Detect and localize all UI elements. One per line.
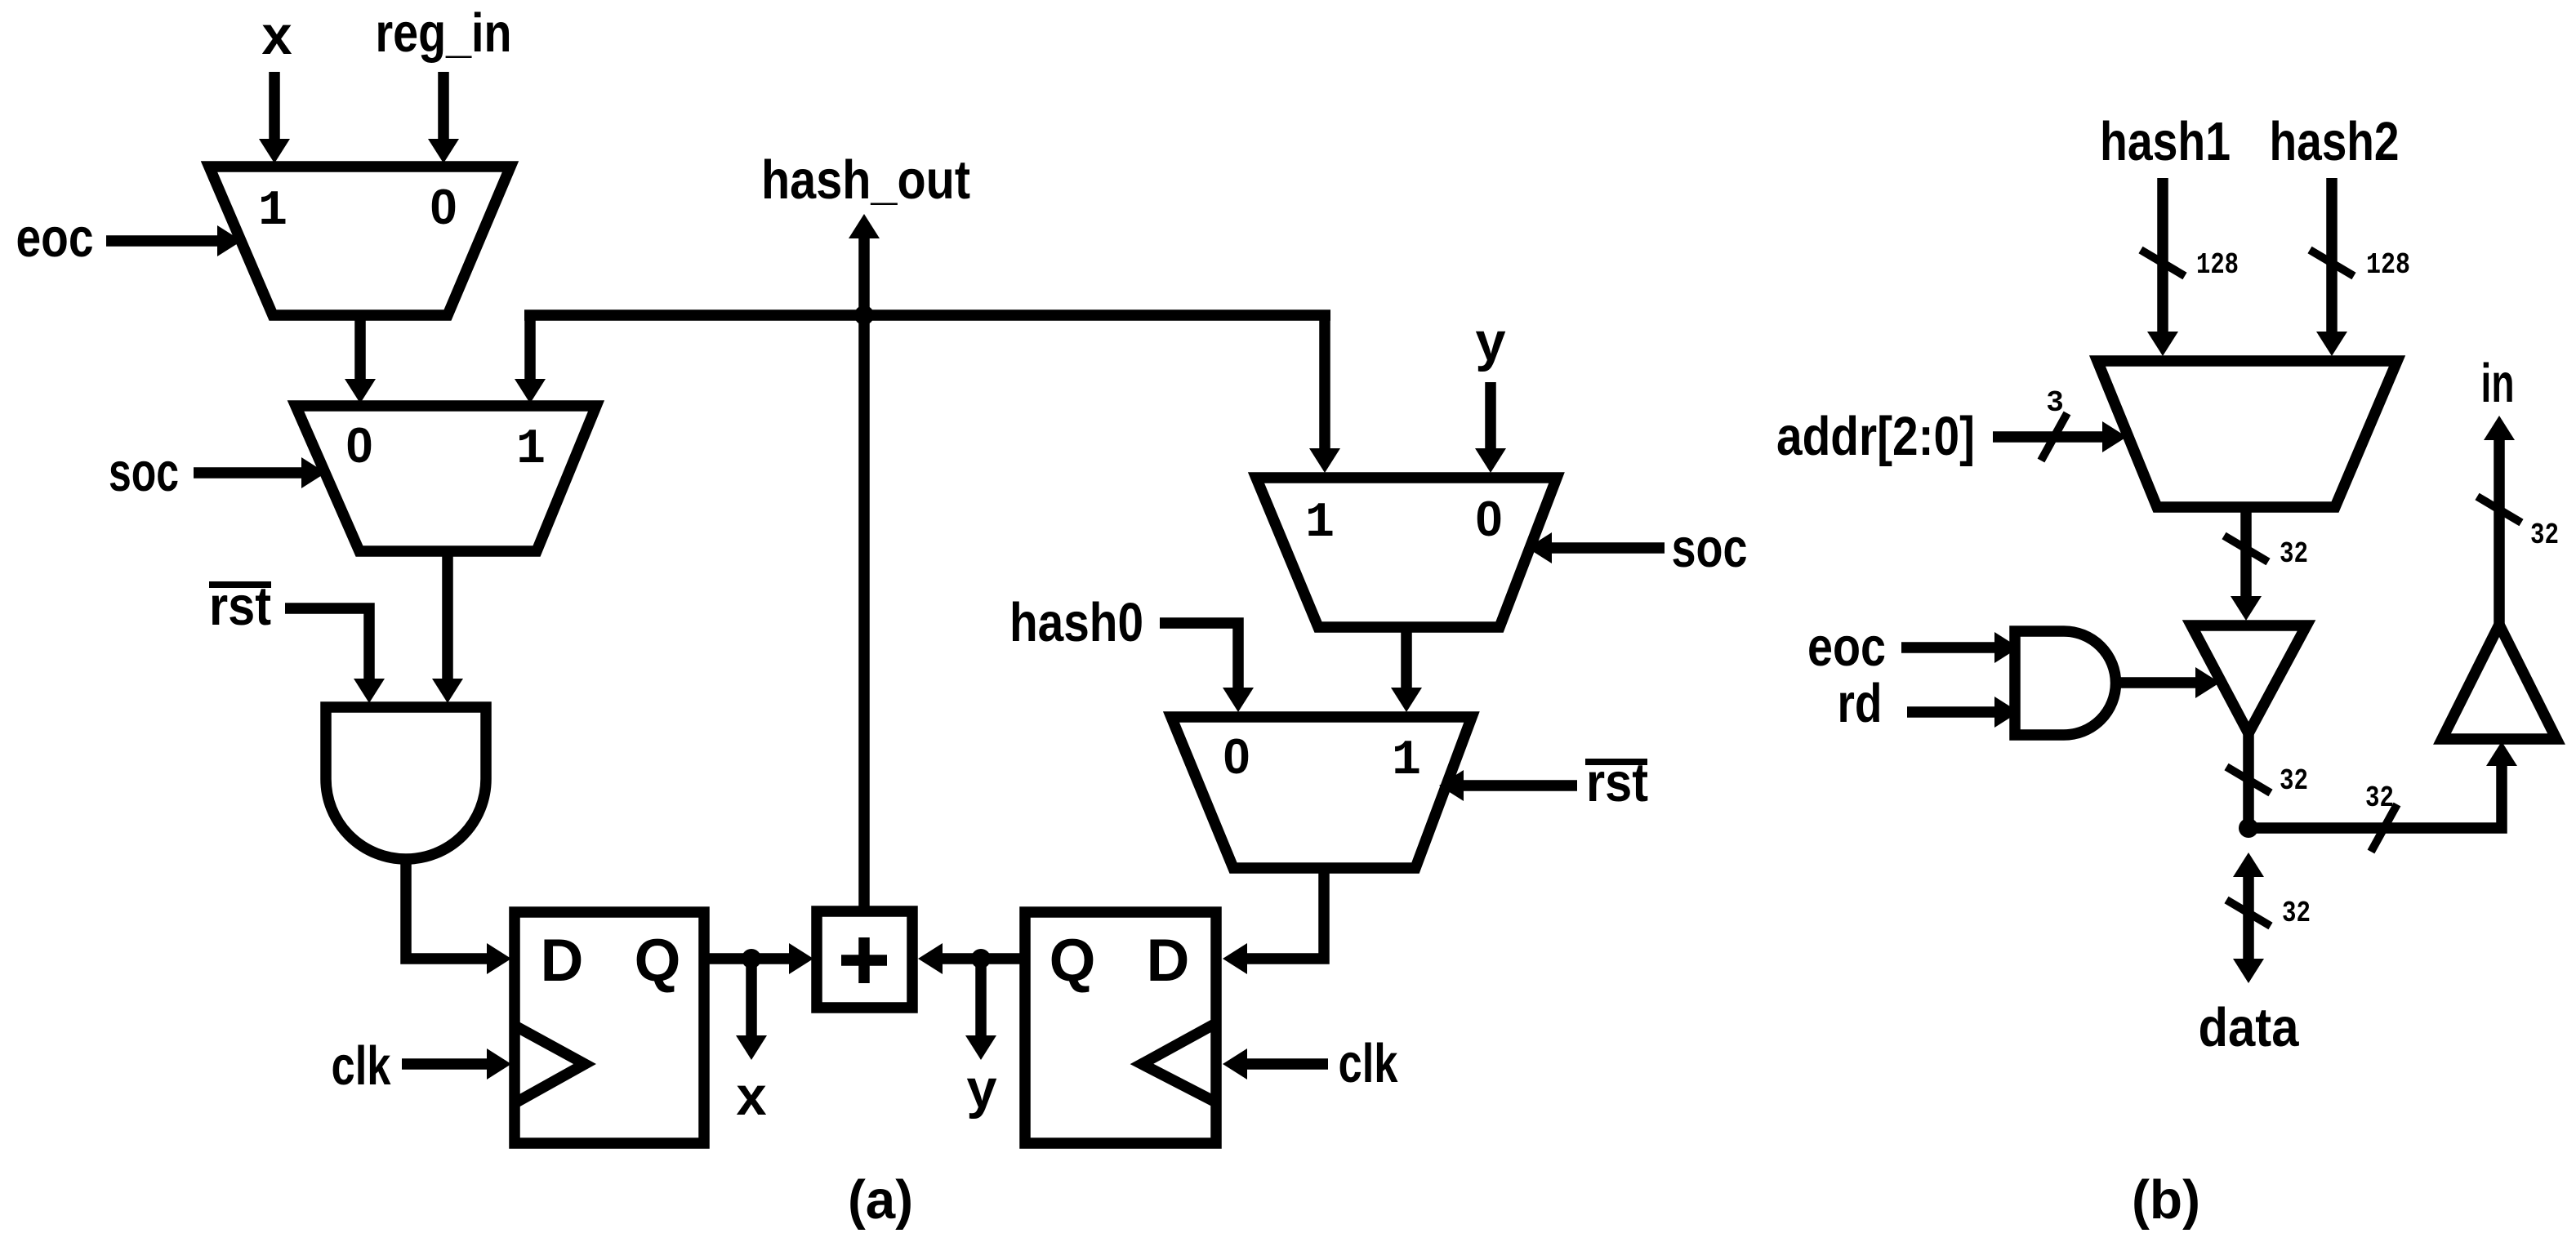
bus tick on in wire — [2477, 496, 2521, 523]
svg-text:hash2: hash2 — [2270, 111, 2400, 172]
wire clk arrow into FF2 — [1247, 1058, 1328, 1070]
svg-text:3: 3 — [2046, 386, 2064, 420]
clock wedge of FF1 — [515, 1026, 585, 1103]
svg-text:clk: clk — [1339, 1033, 1399, 1094]
wire A1 output to FF1 D input — [406, 859, 487, 959]
wire M5 output arrow into tristate U2 — [2240, 507, 2252, 596]
svg-text:y: y — [966, 1058, 996, 1120]
bus width label 128 (hash1) — [2196, 248, 2239, 282]
svg-text:128: 128 — [2366, 248, 2410, 282]
svg-text:1: 1 — [1305, 496, 1335, 551]
signal label in — [2481, 353, 2515, 414]
wire M3 output arrow into M4 — [1401, 627, 1412, 688]
node data junction — [2239, 818, 2258, 838]
wire x input arrow — [269, 72, 280, 139]
mux M5 (addr select) — [2097, 361, 2397, 507]
wire y tap arrow — [975, 959, 987, 1035]
wire node y to adder arrow — [943, 953, 981, 964]
wire reg_in input arrow — [438, 72, 449, 139]
wire eoc arrow into A2 — [1901, 642, 1994, 653]
svg-text:hash_out: hash_out — [761, 149, 970, 211]
signal label clk (left) — [332, 1035, 392, 1097]
wire feedback arrow into M3 input 1 — [1319, 310, 1330, 449]
svg-text:1: 1 — [1392, 733, 1421, 789]
pin label D of FF1 — [541, 928, 584, 994]
wire adder output up to junction — [858, 315, 870, 911]
wire hash0 into M4 input 0 — [1160, 623, 1238, 688]
bus tick on hash2 wire — [2310, 250, 2354, 276]
signal label soc (left) — [109, 442, 179, 503]
svg-text:Q: Q — [635, 928, 681, 994]
bus width label 32 (U2 output) — [2280, 764, 2308, 798]
svg-text:y: y — [1475, 311, 1505, 372]
svg-text:x: x — [261, 5, 292, 66]
wire FF2 Q output to node y — [981, 953, 1025, 964]
plus symbol of adder U1 — [841, 937, 887, 983]
and-gate A2 — [2015, 631, 2116, 735]
signal label data — [2199, 997, 2300, 1058]
flip-flop FF1 box — [515, 912, 704, 1143]
svg-text:Q: Q — [1050, 928, 1096, 994]
wire addr select arrow into M5 — [1993, 431, 2102, 443]
svg-text:32: 32 — [2530, 519, 2559, 552]
pin label 0 of M1 — [430, 180, 457, 234]
bus tick on U2 output — [2226, 767, 2271, 793]
signal label eoc (b) — [1807, 617, 1886, 678]
svg-text:hash0: hash0 — [1009, 592, 1143, 653]
svg-text:addr[2:0]: addr[2:0] — [1776, 406, 1975, 467]
signal label reg_in — [376, 2, 512, 64]
svg-text:clk: clk — [332, 1035, 392, 1097]
caption (b) — [2132, 1169, 2200, 1231]
wire soc select arrow into M3 — [1552, 542, 1665, 554]
pin label 1 of M2 — [516, 422, 546, 478]
svg-text:soc: soc — [1672, 518, 1748, 579]
clock wedge of FF2 — [1142, 1023, 1216, 1102]
svg-text:D: D — [541, 928, 584, 994]
pin label Q of FF1 — [635, 928, 681, 994]
and-gate A1 — [326, 707, 486, 859]
wire hash1 input arrow — [2157, 178, 2168, 332]
svg-text:32: 32 — [2365, 781, 2394, 815]
signal label hash2 — [2270, 111, 2400, 172]
node hash_out junction — [854, 305, 874, 325]
signal label eoc — [16, 207, 94, 269]
flip-flop FF2 box — [1025, 912, 1216, 1143]
bus tick on hash1 wire — [2141, 250, 2185, 276]
wire rd arrow into A2 — [1907, 706, 1994, 718]
pin label 0 of M3 — [1475, 492, 1502, 546]
signal label addr[2:0] — [1776, 406, 1975, 467]
bus tick on addr wire — [2041, 413, 2067, 461]
wire U3 output arrow to in — [2494, 440, 2505, 625]
bus width label 32 (node-to-U3) — [2365, 781, 2394, 815]
wire clk arrow into FF1 — [402, 1058, 487, 1070]
mux M4 (rst select) — [1171, 717, 1472, 868]
signal label x (register output) — [736, 1066, 766, 1127]
svg-text:(a): (a) — [848, 1169, 913, 1231]
svg-text:128: 128 — [2196, 248, 2239, 282]
wire hash_out output arrow — [858, 238, 870, 315]
pin label 1 of M4 — [1392, 733, 1421, 789]
bus width label 32 (in) — [2530, 519, 2559, 552]
mux M2 (soc select) — [296, 406, 596, 551]
svg-text:eoc: eoc — [16, 207, 94, 269]
wire eoc select arrow — [106, 235, 217, 247]
signal label rst-bar (right) — [1585, 752, 1648, 813]
signal label hash1 — [2100, 111, 2231, 172]
wire rst select arrow into M4 — [1464, 780, 1577, 791]
svg-text:32: 32 — [2282, 897, 2311, 930]
signal label soc (right) — [1672, 518, 1748, 579]
wire node x to adder arrow — [751, 953, 789, 964]
svg-text:32: 32 — [2280, 764, 2308, 798]
pin label 1 of M3 — [1305, 496, 1335, 551]
signal label hash_out — [761, 149, 970, 211]
pin label 0 of M4 — [1223, 729, 1250, 784]
wire M1 output arrow into M2 — [354, 315, 366, 379]
svg-text:in: in — [2481, 353, 2515, 414]
signal label y (top right input) — [1475, 311, 1505, 372]
bus width label 32 (M5 output) — [2280, 537, 2308, 571]
svg-text:D: D — [1147, 928, 1190, 994]
svg-text:0: 0 — [430, 180, 457, 234]
pin label Q of FF2 — [1050, 928, 1096, 994]
mux M1 (eoc select) — [209, 167, 510, 315]
svg-text:0: 0 — [345, 418, 372, 473]
pin label D of FF2 — [1147, 928, 1190, 994]
node y junction — [971, 949, 991, 968]
signal label rd — [1838, 673, 1883, 734]
signal label hash0 — [1009, 592, 1143, 653]
tristate buffer U3 (upward) — [2442, 625, 2556, 739]
wire U2 output down to node data — [2243, 733, 2254, 828]
caption (a) — [848, 1169, 913, 1231]
pin label 0 of M2 — [345, 418, 372, 473]
svg-text:reg_in: reg_in — [376, 2, 512, 64]
bus tick on node-to-U3 wire — [2371, 804, 2397, 852]
mux M3 (soc select) — [1256, 478, 1557, 627]
wire x tap arrow — [746, 959, 757, 1035]
svg-text:data: data — [2199, 997, 2300, 1058]
bus width label 128 (hash2) — [2366, 248, 2410, 282]
bus tick on data wire — [2226, 900, 2271, 926]
svg-text:x: x — [736, 1066, 766, 1127]
wire rst to AND gate A1 — [285, 608, 369, 679]
signal label rst-bar (left) — [209, 576, 271, 637]
bus tick on M5 output — [2224, 536, 2268, 562]
tristate buffer U2 (downward) — [2191, 625, 2306, 733]
svg-text:hash1: hash1 — [2100, 111, 2231, 172]
bus width label 32 (data) — [2282, 897, 2311, 930]
node x junction — [742, 949, 761, 968]
wire feedback bus horizontal — [524, 309, 1330, 321]
svg-text:eoc: eoc — [1807, 617, 1886, 678]
wire y input arrow — [1485, 382, 1496, 448]
signal label y (register output) — [966, 1058, 996, 1120]
bus width label 3 — [2046, 386, 2064, 420]
svg-text:(b): (b) — [2132, 1169, 2200, 1231]
wire FF1 Q output to node x — [704, 953, 751, 964]
svg-text:0: 0 — [1223, 729, 1250, 784]
svg-text:0: 0 — [1475, 492, 1502, 546]
wire hash2 input arrow — [2326, 178, 2338, 332]
signal label clk (right) — [1339, 1033, 1399, 1094]
adder U1 box — [817, 911, 912, 1008]
wire M2 output to AND gate A1 — [442, 551, 453, 679]
wire M4 output to FF2 D input — [1247, 868, 1324, 959]
svg-text:32: 32 — [2280, 537, 2308, 571]
wire feedback arrow into M2 input 1 — [524, 310, 536, 380]
pin label 1 of M1 — [258, 184, 287, 239]
wire A2 output arrow to U2 enable — [2115, 677, 2195, 688]
wire data bidirectional arrow — [2243, 877, 2254, 959]
wire node data to U3 input — [2248, 766, 2502, 828]
wire soc select arrow — [194, 467, 301, 479]
svg-text:1: 1 — [516, 422, 546, 478]
svg-text:rd: rd — [1838, 673, 1883, 734]
svg-text:soc: soc — [109, 442, 179, 503]
signal label x (input) — [261, 5, 292, 66]
svg-text:1: 1 — [258, 184, 287, 239]
